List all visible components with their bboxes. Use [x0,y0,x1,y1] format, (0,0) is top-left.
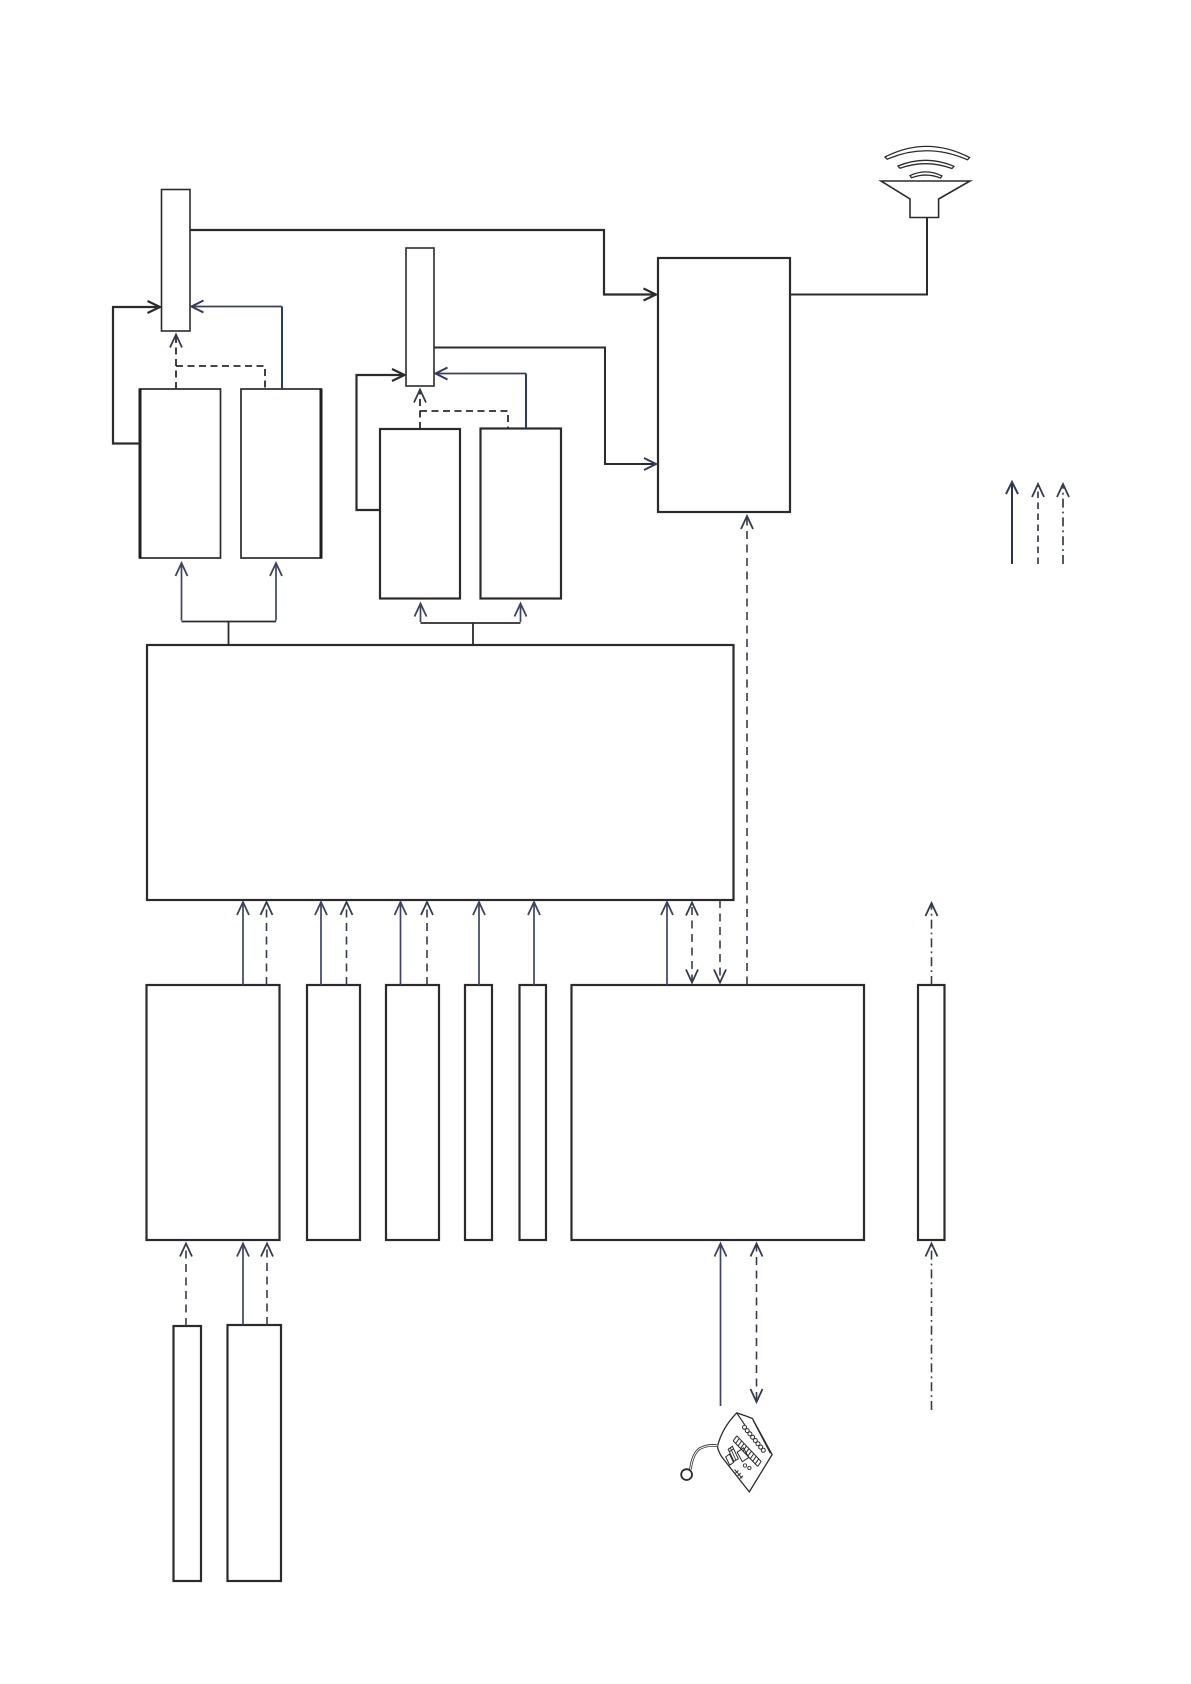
wire AMP right edge to loudspeaker [790,218,927,295]
dashed arrow H top to A bottom [185,1244,187,1327]
solid arrow C top to WIDE bottom [400,902,402,985]
block E (row box 5) [520,985,547,1240]
block R1 (top-left tall rectangle) [162,190,191,332]
dashed arrow I top to A bottom [266,1244,268,1326]
console key row 2 (comb band) [733,1436,761,1467]
console body outline [718,1413,773,1492]
solid arrow F top to WIDE bottom [666,902,668,985]
dashed arrow WIDE bottom down to F top [719,900,721,983]
wire navy vertical into P2R top [525,374,527,429]
dashed wire branch to P2R top [420,411,508,429]
solid arrow I top to A bottom [242,1244,244,1326]
wire pair-1 collector to WIDE box [181,563,183,621]
solid arrow E top to WIDE bottom [533,902,535,985]
mic ring [681,1469,692,1480]
block P1L thick left edge [139,389,142,559]
dashed arrow A top to WIDE bottom [266,902,268,985]
block R2 (middle tall rectangle) [406,248,434,386]
console inner right edge [753,1420,770,1453]
loudspeaker sound wave small [910,172,942,178]
block C (row box 3) [386,985,439,1240]
legend dashed arrow [1037,484,1039,564]
block I (bottom-left wider box) [228,1325,282,1581]
console fold line [737,1413,745,1425]
block A (row box 1) [147,985,280,1240]
block AMP (big right box) [658,258,790,512]
dashed arrow B top to WIDE bottom [346,902,348,985]
wire bracket P1L left edge to R1 left side [113,307,160,444]
block P1R thick right edge [320,389,323,559]
loudspeaker sound wave middle [898,160,954,168]
solid arrow D top to WIDE bottom [478,902,480,985]
solid arrow B top to WIDE bottom [320,902,322,985]
wire navy vertical into P1R top [281,307,283,390]
legend solid arrow [1011,482,1013,564]
console bottom comb row [735,1470,744,1479]
block WIDE (central wide box) [147,645,734,900]
block B (row box 2) [307,985,360,1240]
block P1R (pair-1 right box) [241,389,321,558]
console small keys oo [743,1464,751,1470]
console small rect left (hatched tall key) [728,1446,738,1461]
dashed wire P2 boxes to R2 bottom [419,390,421,430]
solid arrow A top to WIDE bottom [242,902,244,985]
solid arrow mic up to F bottom [720,1244,722,1407]
block P1L (pair-1 left box) [140,389,221,558]
wire bracket P2L left edge to R2 left side [357,375,405,510]
console small rect lower-left [726,1454,734,1465]
wire navy feedback P1R top to R1 right side [192,306,283,308]
loudspeaker sound wave large [885,146,970,159]
dashed double arrow between WIDE bottom and F top [691,903,693,983]
wire R2 right edge to AMP (second feed line) [434,348,656,465]
console key row 1 (round keys) [743,1425,766,1452]
microphone console MIC1 [681,1413,772,1492]
dashed arrow C top to WIDE bottom [426,902,428,985]
block D (row box 4) [465,985,492,1240]
dashed wire branch to P1R top [176,366,265,389]
long dashed arrow F top up to AMP bottom [746,516,748,985]
wire pair-2 collector to WIDE box [420,604,422,623]
dashed wire P1 boxes to R1 bottom [175,335,177,390]
block H (bottom-left narrow box) [174,1326,202,1581]
loudspeaker LS1 horn [881,181,970,218]
dashed double arrow between F bottom and mic [756,1244,758,1403]
block P2L (pair-2 left box) [380,429,460,599]
console screen rect [737,1448,749,1462]
dash-dot arrow from below into G bottom [931,1244,933,1411]
block F (row large box) [572,985,865,1240]
gooseneck [691,1445,718,1469]
wire navy feedback P2R top to R2 right side [436,373,527,375]
dash-dot arrow G top upward [931,903,933,985]
block G (row far-right narrow box) [918,985,945,1240]
wire R1 right edge to AMP (top feed line) [190,230,656,295]
legend dash-dot arrow [1062,484,1064,564]
block P2R (pair-2 right box) [481,429,562,599]
